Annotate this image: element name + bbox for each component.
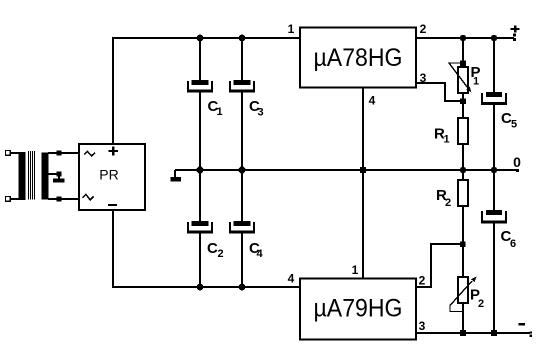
wire lower left rail to pin4 of U2 <box>112 286 301 288</box>
node mid rail C5C6 <box>491 167 497 173</box>
wire pin3 of U1 to P1 wiper net <box>416 83 463 101</box>
wire 0V mid rail <box>175 169 518 171</box>
wire C2 bottom <box>199 233 201 288</box>
wire primary top <box>10 152 26 154</box>
label ~ ac input bottom <box>83 194 94 200</box>
wire C2 top <box>199 169 201 222</box>
wire C4 bottom <box>241 233 243 288</box>
wire C3 top <box>241 37 243 81</box>
node center tap <box>57 172 62 177</box>
wire C5 top <box>493 37 495 92</box>
wire C3 bottom <box>241 92 243 171</box>
resistor R1 <box>458 118 468 144</box>
node top rail C3 <box>239 35 246 42</box>
wire secondary center tap <box>48 174 59 179</box>
node R2 P2 pin2 <box>460 242 466 248</box>
transformer TR primary winding <box>19 153 26 200</box>
node mid rail R1R2 <box>460 167 466 173</box>
node P1 bottom <box>460 99 466 105</box>
node bottom rail P2 <box>460 330 466 336</box>
node P1 top <box>460 61 466 67</box>
wire pin2 of U2 to R2 P2 junction <box>416 244 463 287</box>
wire P1 top <box>462 38 464 67</box>
label + output <box>514 25 517 32</box>
svg-text:2: 2 <box>445 197 451 209</box>
regulator U2 uA79HG <box>300 279 416 340</box>
regulator U1 uA78HG <box>300 28 416 88</box>
node secondary bottom <box>57 197 62 202</box>
wire PR minus output down <box>112 209 114 287</box>
wire secondary bottom <box>48 198 79 200</box>
node mid rail C1C2 <box>197 167 204 174</box>
svg-text:µA78HG: µA78HG <box>314 44 403 72</box>
P1 wiper arm <box>449 63 468 88</box>
wire R2 bottom <box>462 206 464 244</box>
svg-text:0: 0 <box>513 154 521 170</box>
wire C5 bottom <box>493 104 495 171</box>
wire P2 bottom <box>462 303 464 334</box>
svg-text:1: 1 <box>444 134 450 146</box>
node mid rail pin4 <box>360 167 366 173</box>
svg-text:1: 1 <box>288 22 295 36</box>
potentiometer P1 <box>458 67 468 93</box>
capacitor C1 <box>187 80 213 93</box>
wire R2 top <box>462 169 464 180</box>
wire PR plus output up <box>112 37 114 144</box>
capacitor C6 <box>481 210 507 223</box>
capacitor C3 <box>229 80 255 93</box>
node mid rail C3C4 <box>239 167 246 174</box>
wire P1 bottom to R1 <box>462 93 464 118</box>
svg-text:2: 2 <box>419 274 426 288</box>
terminal minus marks <box>529 331 532 333</box>
potentiometer P2 <box>458 277 468 303</box>
wire C1 bottom <box>199 92 201 171</box>
wire top rail right (pin2 to plus terminal) <box>415 37 514 39</box>
transformer TR secondary winding <box>42 153 49 200</box>
ground 0V rail <box>174 170 176 178</box>
resistor R2 <box>458 180 468 206</box>
node top rail C5 <box>491 35 497 41</box>
wire secondary top <box>48 152 79 154</box>
node top rail C1 <box>197 35 204 42</box>
label - output <box>519 323 525 326</box>
capacitor C2 <box>187 221 213 234</box>
svg-text:4: 4 <box>369 94 376 108</box>
wire top rail left <box>112 37 301 39</box>
node lower rail C2 <box>197 284 204 291</box>
svg-text:1: 1 <box>473 76 479 88</box>
terminal 0 mark <box>516 169 519 172</box>
terminal plus marks <box>513 33 516 36</box>
transformer TR primary terminal top <box>6 151 11 156</box>
capacitor C5 <box>481 92 507 105</box>
wire bottom rail pin3 U2 to minus terminal <box>415 332 530 334</box>
wire P2 top <box>462 244 464 277</box>
transformer TR primary terminal bottom <box>6 197 11 202</box>
svg-text:4: 4 <box>257 248 264 260</box>
svg-text:µA79HG: µA79HG <box>314 295 403 323</box>
svg-text:PR: PR <box>99 167 118 183</box>
bridge rectifier PR <box>79 144 145 210</box>
wire C1 top <box>199 37 201 81</box>
node secondary top <box>57 151 62 156</box>
svg-text:5: 5 <box>511 119 517 131</box>
svg-text:3: 3 <box>258 107 264 119</box>
svg-text:6: 6 <box>510 238 516 250</box>
svg-text:C: C <box>207 240 218 257</box>
svg-text:2: 2 <box>218 248 224 260</box>
label ~ ac input top <box>84 151 95 156</box>
label - of PR <box>108 204 117 206</box>
svg-text:4: 4 <box>288 272 295 286</box>
transformer TR core <box>28 151 35 200</box>
wire C6 top <box>493 169 495 210</box>
node lower rail C4 <box>239 284 246 291</box>
P2 wiper arm <box>450 281 472 312</box>
ground transformer center tap <box>53 179 65 183</box>
node bottom rail C6 <box>491 330 497 336</box>
svg-text:1: 1 <box>217 106 223 118</box>
wire pin4 U1 to pin1 U2 <box>362 87 364 278</box>
wire primary bottom <box>10 198 26 200</box>
svg-text:2: 2 <box>420 22 427 36</box>
svg-text:3: 3 <box>419 319 426 333</box>
wire C4 top <box>241 169 243 222</box>
capacitor C4 <box>229 221 255 234</box>
svg-text:2: 2 <box>478 298 484 310</box>
svg-text:1: 1 <box>352 263 359 277</box>
label + of PR <box>112 146 115 155</box>
wire C6 bottom <box>493 222 495 334</box>
node top rail P1 <box>460 35 466 41</box>
wire R1 bottom <box>462 144 464 171</box>
